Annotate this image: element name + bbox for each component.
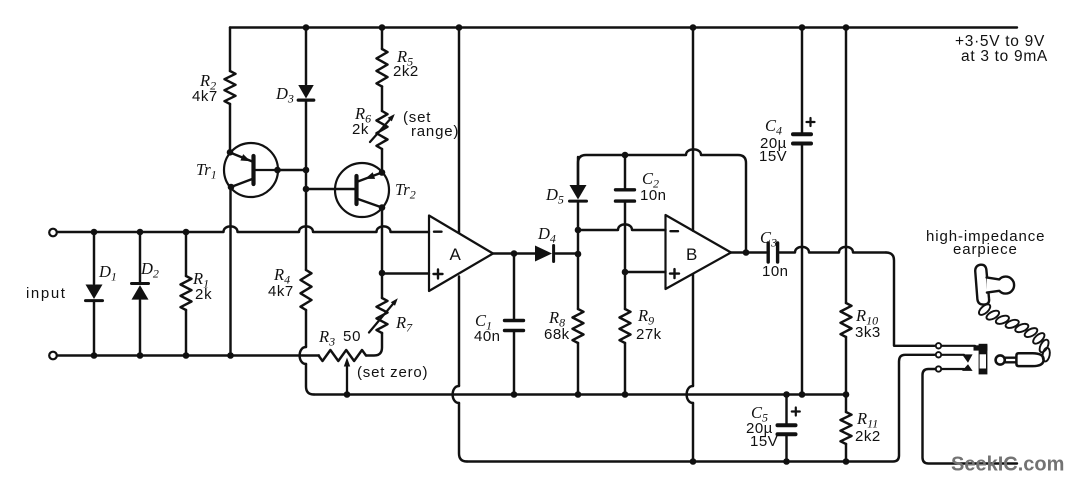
wire R7 to R3 right end <box>366 333 382 356</box>
wire top supply rail <box>230 26 1017 28</box>
wire Tr2 base from D3 column <box>306 188 357 190</box>
diode D5 <box>577 157 579 185</box>
op-amp A body <box>429 216 493 292</box>
junction A output / C1 <box>511 250 518 257</box>
junction B supply / bottom rail <box>690 458 697 465</box>
junction input rail / D2 <box>137 229 144 236</box>
svg-text:input: input <box>26 285 67 302</box>
wire jack terminal 3 down and right <box>923 369 1018 464</box>
diode D2 <box>139 232 141 283</box>
junction C2 top / feedback wire <box>622 152 629 159</box>
svg-text:15V: 15V <box>759 148 787 165</box>
junction top rail / D3 <box>303 24 310 31</box>
wire op-amp B output <box>731 251 766 253</box>
op-amp B plus <box>670 272 679 274</box>
wire inverting input of B with hop over C2 <box>578 224 666 230</box>
junction R10 R11 / common rail <box>843 391 850 398</box>
wire D5 column <box>577 202 579 309</box>
svg-text:4k7: 4k7 <box>192 88 218 105</box>
resistor R4 4k7 <box>301 270 312 310</box>
diode D4 <box>535 246 552 262</box>
svg-text:(set zero): (set zero) <box>357 364 428 381</box>
op-amp A plus <box>434 273 443 275</box>
earpiece plug <box>996 355 1005 364</box>
junction C1 / common rail <box>511 391 518 398</box>
svg-text:2k2: 2k2 <box>393 63 419 80</box>
junction input rail / R1 <box>183 229 190 236</box>
junction C2 / noninverting wire <box>622 269 629 276</box>
wire Tr2 collector to noninverting node <box>381 208 383 274</box>
junction input rail / D1 <box>91 229 98 236</box>
svg-text:B: B <box>686 245 697 264</box>
resistor R10 3k3 <box>841 303 852 337</box>
wire D4 to node <box>556 252 578 254</box>
op-amp A minus <box>434 230 442 232</box>
junction top rail / op-amp A supply <box>456 24 463 31</box>
junction D4 output node <box>575 251 582 258</box>
op-amp B minus <box>671 230 679 232</box>
jack terminal 1 <box>936 343 941 348</box>
op-amp B supply to bottom rail <box>692 274 694 386</box>
junction C5 / common rail <box>783 391 790 398</box>
wire R6 to Tr2 emitter <box>381 149 383 173</box>
svg-text:2k: 2k <box>195 286 212 303</box>
svg-text:10n: 10n <box>762 263 789 280</box>
resistor R2 4k7 <box>229 28 231 72</box>
capacitor C4 20u 15V <box>801 28 803 133</box>
junction bottom rail / D1 <box>91 352 98 359</box>
svg-text:10n: 10n <box>640 187 667 204</box>
wire jack terminal 3 to contact <box>942 368 965 370</box>
wire top rail to D3 <box>305 28 307 85</box>
junction wiper / common rail <box>344 391 351 398</box>
transistor Tr2 <box>335 163 389 217</box>
resistor R7 variable <box>381 273 383 298</box>
svg-text:A: A <box>450 245 462 264</box>
op-amp B body <box>666 215 732 289</box>
earpiece cord <box>977 302 992 316</box>
input terminal top <box>49 229 57 237</box>
plus sign C5 <box>792 410 800 412</box>
wire R5 to R6 <box>381 87 383 112</box>
input terminal bottom <box>49 352 57 360</box>
junction inverting node B <box>575 227 582 234</box>
svg-text:4k7: 4k7 <box>268 283 294 300</box>
junction bottom rail / R1 <box>183 352 190 359</box>
svg-text:68k: 68k <box>544 326 570 343</box>
diode D1 <box>93 232 95 284</box>
svg-text:2k2: 2k2 <box>855 428 881 445</box>
wire Tr1 collector down to input bottom rail <box>229 187 231 356</box>
junction top rail / R5 <box>379 24 386 31</box>
wire R4 to common rail with hop over input rail <box>305 310 307 347</box>
jack terminal 2 <box>936 352 941 357</box>
svg-text:15V: 15V <box>750 433 778 450</box>
svg-text:range): range) <box>411 123 459 140</box>
op-amp A supply to bottom rail <box>458 277 460 387</box>
capacitor C5 20u 15V <box>785 395 787 424</box>
op-amp B supply from top rail <box>692 28 694 231</box>
jack socket <box>974 345 988 350</box>
svg-text:SeekIC.com: SeekIC.com <box>951 454 1064 476</box>
wiper of R3 set zero <box>346 364 348 395</box>
capacitor C2 10n <box>624 155 626 188</box>
wire C3 to jack tip with hops <box>780 247 887 253</box>
junction R9 / common rail <box>622 391 629 398</box>
transistor Tr1 <box>224 143 278 197</box>
wire input bottom rail <box>57 354 319 356</box>
junction C4 / common rail <box>799 391 806 398</box>
jack terminal 3 <box>936 366 941 371</box>
svg-text:earpiece: earpiece <box>953 241 1018 258</box>
resistor R3 50 horizontal <box>319 350 367 361</box>
resistor R5 2k2 <box>377 49 388 87</box>
junction bottom rail / D2 <box>137 352 144 359</box>
svg-text:27k: 27k <box>636 326 662 343</box>
diode D3 <box>298 85 314 99</box>
wire top rail to R10 <box>845 28 847 304</box>
capacitor C3 10n <box>767 243 770 262</box>
junction C5 / bottom rail <box>783 458 790 465</box>
jack contact lower <box>962 364 973 371</box>
jack contact upper <box>962 354 973 362</box>
resistor R1 2k <box>185 232 187 276</box>
junction R8 / common rail <box>575 391 582 398</box>
svg-text:3k3: 3k3 <box>855 324 881 341</box>
wire Tr1 base to D3 column <box>278 169 307 171</box>
resistor R11 2k2 <box>845 395 847 413</box>
svg-text:40n: 40n <box>474 328 501 345</box>
wire noninverting node to op-amp A <box>382 272 429 274</box>
svg-text:2k: 2k <box>352 121 369 138</box>
high-impedance earpiece drawing <box>975 265 989 305</box>
resistor R6 2k variable <box>377 111 388 149</box>
wire D3 column down to R4 <box>305 170 307 270</box>
resistor R9 27k <box>620 309 631 343</box>
junction top rail / op-amp B supply <box>690 24 697 31</box>
capacitor C1 40n <box>513 254 515 319</box>
wire noninverting input of B <box>625 271 666 273</box>
wire bottom rail <box>467 355 935 462</box>
wire top rail to R5 <box>381 28 383 50</box>
op-amp A supply from top rail <box>458 28 460 233</box>
junction top rail / R10 <box>843 24 850 31</box>
junction B output / feedback <box>743 249 750 256</box>
plus sign C4 <box>807 121 815 123</box>
svg-text:50: 50 <box>343 328 361 345</box>
resistor R8 68k <box>573 309 584 343</box>
junction noninverting node <box>379 270 386 277</box>
junction D3 column / Tr1 base <box>303 167 310 174</box>
wire input top rail to op-amp A inverting input <box>57 226 429 232</box>
wire feedback loop with hop over supply line <box>578 149 746 252</box>
junction bottom rail / Tr1 collector <box>227 352 234 359</box>
junction D3 column / Tr2 base <box>303 186 310 193</box>
junction top rail / C4 <box>799 24 806 31</box>
wire common rail <box>314 393 846 395</box>
svg-text:at 3 to 9mA: at 3 to 9mA <box>961 48 1048 65</box>
wire jack terminal 1 to socket <box>942 345 976 347</box>
wire op-amp A output <box>493 252 535 254</box>
wire jack terminal 2 to contact <box>942 354 965 356</box>
junction R11 / bottom rail <box>843 458 850 465</box>
